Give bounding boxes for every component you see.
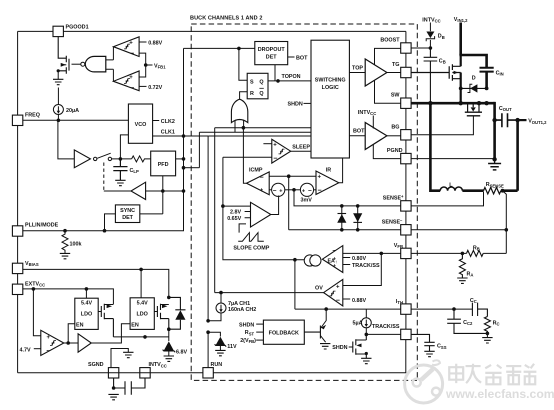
svg-text:+: + xyxy=(318,175,322,181)
svg-text:RST: RST xyxy=(245,330,255,336)
dashed IC boundary box BUCK CHANNELS 1 AND 2 xyxy=(190,16,417,381)
wire bus row1 xyxy=(215,126,311,130)
pin PGND xyxy=(387,148,411,164)
pin SW xyxy=(391,93,411,109)
ground (Q1 emitter) xyxy=(320,344,330,349)
wire dropout to TOPON xyxy=(275,65,280,83)
svg-text:TOPON: TOPON xyxy=(282,74,301,80)
svg-text:OV: OV xyxy=(315,285,323,291)
capacitor CC2 xyxy=(447,309,487,333)
svg-text:CLK1: CLK1 xyxy=(161,130,175,136)
source gm (EA output mirror circles) xyxy=(304,255,321,266)
amplifier EA (error amp, pointing left) xyxy=(322,246,342,273)
node VOUT1,2 xyxy=(515,118,547,191)
node INTVCC (boost diode supply) xyxy=(422,17,440,31)
resistor RA xyxy=(459,253,473,278)
svg-text:BOOST: BOOST xyxy=(380,38,400,44)
svg-text:EN: EN xyxy=(76,322,84,328)
diode D4 (sense clamp up) xyxy=(337,206,346,230)
node CLK2 xyxy=(153,119,175,125)
svg-text:INTVCC: INTVCC xyxy=(149,362,167,368)
node RST input xyxy=(245,330,264,336)
ground (M4 source) xyxy=(361,358,371,363)
svg-text:RSENSE: RSENSE xyxy=(486,182,504,188)
transistor M6 (bottom power NMOS) xyxy=(411,103,482,135)
comparator U4 (4.7V EXTVCC comparator) xyxy=(20,289,64,356)
DROPOUT DET box xyxy=(255,42,288,65)
capacitor CLP xyxy=(113,159,139,180)
diode D2 (VBIAS FET parallel diode) xyxy=(169,297,186,329)
svg-text:SW: SW xyxy=(391,93,401,99)
OR gate U6 (pointing up) xyxy=(231,99,247,132)
svg-text:SHDN: SHDN xyxy=(288,102,303,108)
svg-text:RC: RC xyxy=(493,320,500,326)
node VIN1,2 xyxy=(454,17,468,55)
wire VFB to OV plus xyxy=(343,253,382,285)
wire ICMP minus to IR plus xyxy=(269,174,316,229)
svg-text:BUCK CHANNELS 1 AND 2: BUCK CHANNELS 1 AND 2 xyxy=(190,16,263,22)
transistor M5 (top power NMOS) xyxy=(411,55,461,103)
pin TG xyxy=(392,62,411,78)
resistor 100k xyxy=(62,231,82,254)
svg-text:SLOPE COMP: SLOPE COMP xyxy=(233,245,269,251)
svg-text:www.elecfans.com: www.elecfans.com xyxy=(445,387,554,401)
svg-text:0.88V: 0.88V xyxy=(352,298,366,304)
svg-text:RA: RA xyxy=(467,271,474,277)
bottom rail wire xyxy=(18,339,406,372)
svg-text:SLEEP: SLEEP xyxy=(292,144,310,150)
watermark logo elecfans xyxy=(405,360,443,403)
svg-text:VIN1,2: VIN1,2 xyxy=(454,17,468,23)
svg-text:Q: Q xyxy=(259,91,263,97)
ground (6.8V zener) xyxy=(164,356,174,361)
switch SW1 (mode switch) xyxy=(97,153,111,191)
svg-text:CC: CC xyxy=(470,298,477,304)
comparator SLEEP xyxy=(223,139,311,163)
comparator ICMP (pointing left) xyxy=(247,168,270,195)
svg-text:−: − xyxy=(336,297,340,304)
pin FREQ xyxy=(12,113,40,126)
svg-text:+: + xyxy=(47,335,51,341)
svg-text:BOT: BOT xyxy=(353,129,365,135)
svg-text:Q: Q xyxy=(259,79,263,85)
comparator PGOOD upper (0.88V) xyxy=(113,37,162,60)
svg-text:D: D xyxy=(472,76,476,82)
transistor M3 (VBIAS pass FET) xyxy=(154,296,170,331)
node VFB1 xyxy=(139,53,166,77)
diode D (SW schottky) xyxy=(459,76,489,93)
svg-text:0.88V: 0.88V xyxy=(148,41,162,47)
svg-text:+: + xyxy=(129,75,133,81)
svg-text:−: − xyxy=(130,85,134,92)
ground (power output) xyxy=(488,159,501,170)
wire PLLIN/MODE row xyxy=(23,191,184,233)
comparator PGOOD lower (0.72V) xyxy=(113,69,162,92)
svg-text:VCO: VCO xyxy=(135,122,147,128)
ground (PGOOD MOSFET source) xyxy=(53,79,63,84)
svg-text:SENSE−: SENSE− xyxy=(382,218,403,225)
wire SENSE- line xyxy=(289,228,401,232)
svg-text:TG: TG xyxy=(392,62,400,68)
pin SGND xyxy=(88,362,119,378)
wire R input from OR gate xyxy=(240,92,248,100)
svg-text:ITH: ITH xyxy=(396,299,403,305)
amplifier SLOPE COMP xyxy=(223,196,279,233)
zener D3 (6.8V) xyxy=(163,329,188,356)
svg-text:5µA: 5µA xyxy=(353,320,363,326)
node BOT (dropout input) xyxy=(288,56,308,62)
svg-text:TRACK/SS: TRACK/SS xyxy=(352,263,380,269)
ground (CLP) xyxy=(115,180,125,185)
wire comparator out / EN taps xyxy=(64,324,78,345)
wire: top rail PGOOD1/BOOST y=31.4 xyxy=(18,30,406,32)
resistor RSENSE xyxy=(484,182,518,194)
svg-text:LDO: LDO xyxy=(81,312,92,318)
svg-text:ICMP: ICMP xyxy=(249,168,263,174)
wire TRACK/SS external / capacitor CSS xyxy=(411,334,447,351)
wire PFD right to rail xyxy=(176,157,186,161)
svg-text:BOT: BOT xyxy=(296,56,308,62)
svg-text:−: − xyxy=(130,51,134,58)
wire ITH sense vertical xyxy=(221,157,304,261)
wire SENSE+ line xyxy=(294,190,401,208)
svg-text:+: + xyxy=(273,143,277,149)
capacitor COUT xyxy=(495,106,518,127)
wire ICMP output vertical xyxy=(243,128,246,184)
pin SENSE+ xyxy=(383,194,411,211)
svg-text:+: + xyxy=(129,41,133,47)
svg-text:CB: CB xyxy=(439,59,446,65)
capacitor CC xyxy=(470,298,488,317)
svg-text:SYNC: SYNC xyxy=(120,208,135,214)
svg-text:20µA: 20µA xyxy=(66,108,79,114)
LDO U2 (5.4V LDO EXTVCC) xyxy=(75,289,98,330)
svg-text:4.7V: 4.7V xyxy=(20,348,31,354)
svg-text:6.8V: 6.8V xyxy=(176,350,187,356)
PFD box xyxy=(151,151,176,176)
svg-text:SWITCHING: SWITCHING xyxy=(315,78,346,84)
wire SW node (thick) xyxy=(411,101,495,105)
wire SGND branch + small ground xyxy=(111,349,134,368)
node TOPON / wire Q to switching logic xyxy=(268,74,311,81)
NAND gate U1 (pointing left) xyxy=(72,56,114,72)
svg-text:VOUT1,2: VOUT1,2 xyxy=(528,119,547,125)
node 2(VFB) input xyxy=(240,338,263,344)
svg-text:R: R xyxy=(250,91,254,97)
resistor RC xyxy=(484,317,499,336)
wire INTVCC internal rail xyxy=(113,335,168,339)
buffer B2 (sync feedback, pointing left) xyxy=(104,182,186,199)
svg-text:VFB: VFB xyxy=(394,243,403,249)
svg-text:DB: DB xyxy=(438,34,445,40)
svg-text:2.8V: 2.8V xyxy=(230,210,241,216)
node SHDN input xyxy=(239,323,263,329)
wire VBIAS rail xyxy=(23,268,169,298)
wire OV feedback vertical xyxy=(214,128,216,293)
svg-text:TOP: TOP xyxy=(352,65,363,71)
svg-text:SHDN: SHDN xyxy=(239,323,254,329)
diode D5 (sense clamp down) xyxy=(353,206,362,230)
svg-text:−: − xyxy=(318,188,322,195)
driver TOP (TG gate driver) xyxy=(349,48,401,103)
svg-text:+: + xyxy=(279,188,282,194)
wire SENSE- external xyxy=(411,191,508,254)
zener D6 (11V RUN clamp) xyxy=(206,330,237,350)
watermark text 电子发烧友 (glyph approximation) xyxy=(449,364,536,385)
left rail x=183.5 upper segment xyxy=(184,48,239,191)
svg-text:5.4V: 5.4V xyxy=(137,301,148,307)
capacitor C1 (INTVCC bypass) + ground xyxy=(108,378,145,400)
pin INTVCC xyxy=(140,362,167,378)
current source 20uA xyxy=(53,88,79,121)
svg-text:5.4V: 5.4V xyxy=(81,301,92,307)
svg-text:SHDN: SHDN xyxy=(332,345,347,351)
svg-text:100k: 100k xyxy=(70,242,82,248)
wire VIN bus xyxy=(459,55,486,68)
wire SYNC DET to PFD xyxy=(162,176,164,214)
source V2 (3mV offset) xyxy=(300,183,316,203)
wire PGND external xyxy=(411,158,493,160)
current source 7uA CH1 / 160nA CH2 xyxy=(206,291,256,323)
svg-text:INTVCC: INTVCC xyxy=(422,17,440,23)
svg-text:PGOOD1: PGOOD1 xyxy=(66,25,89,31)
wire bus row2 xyxy=(199,132,311,168)
wire EXTVCC rail xyxy=(23,287,114,304)
pin TRACK/SS xyxy=(372,324,411,339)
svg-text:LOGIC: LOGIC xyxy=(322,85,339,91)
SYNC DET box xyxy=(105,205,163,231)
ground (RA) xyxy=(457,278,467,283)
svg-text:PGND: PGND xyxy=(387,148,403,154)
node SHDN (switching logic input) xyxy=(288,102,312,108)
transistor M1 (PGOOD pulldown MOSFET) xyxy=(57,37,69,80)
wire BOOST external xyxy=(411,46,432,50)
diode DB (boost schottky) xyxy=(426,32,445,49)
wire EA minus to VFB pin xyxy=(343,249,401,255)
ground (11V zener) xyxy=(215,350,225,355)
resistor R (loop filter) xyxy=(132,156,151,162)
svg-text:IR: IR xyxy=(326,168,331,174)
right pin rail xyxy=(405,31,407,339)
source V1 (slope comp summing) xyxy=(269,183,300,196)
svg-text:CLK2: CLK2 xyxy=(161,119,175,125)
wire: left pin rail x=17.6 xyxy=(17,31,19,372)
SWITCHING LOGIC box xyxy=(311,40,349,158)
inductor L xyxy=(430,103,483,191)
svg-text:COUT: COUT xyxy=(499,106,512,112)
svg-text:+: + xyxy=(302,188,305,194)
comparator OV (pointing left) xyxy=(215,279,367,306)
svg-text:2(VFB): 2(VFB) xyxy=(240,338,256,344)
svg-text:3mV: 3mV xyxy=(301,197,313,203)
svg-text:0.65V: 0.65V xyxy=(227,216,241,222)
ground (100k) xyxy=(60,253,70,258)
LDO U3 (5.4V LDO VBIAS) xyxy=(130,269,154,329)
watermark text www.elecfans.com xyxy=(445,387,554,401)
svg-text:VFB1: VFB1 xyxy=(154,63,166,69)
svg-text:7µA CH1: 7µA CH1 xyxy=(228,301,250,307)
svg-text:INTVCC: INTVCC xyxy=(358,110,376,116)
svg-text:SENSE+: SENSE+ xyxy=(383,194,404,201)
svg-text:CLP: CLP xyxy=(130,168,139,174)
sawtooth waveform glyph xyxy=(233,233,269,252)
pin RUN xyxy=(203,332,222,378)
wire SW to output filter corner (thick) xyxy=(492,103,496,161)
FOLDBACK box xyxy=(263,320,304,344)
wire rail to inner row xyxy=(182,166,200,170)
svg-text:−: − xyxy=(46,348,50,355)
svg-text:CSS: CSS xyxy=(437,344,447,350)
node EA refs 0.80V TRACK/SS xyxy=(343,256,380,269)
transistor Q1 (foldback PNP) xyxy=(304,307,328,342)
current source 5uA (TRACK/SS charge) xyxy=(353,309,372,334)
wire S-latch set line xyxy=(237,47,255,81)
buffer B3 (EN buffer) xyxy=(78,324,130,353)
buffer B1 (VCO control buffer) xyxy=(23,120,97,167)
node ITH row xyxy=(295,260,401,309)
svg-text:S: S xyxy=(250,79,254,85)
wire bus row3 xyxy=(208,136,311,321)
svg-text:+: + xyxy=(336,284,340,290)
svg-text:LDO: LDO xyxy=(137,312,148,318)
latch U5 (SR latch) xyxy=(247,73,268,99)
comparator IR xyxy=(316,158,343,195)
transistor M4 (SHDN pulldown on TRACK/SS) xyxy=(332,334,368,358)
svg-text:RUN: RUN xyxy=(211,362,223,368)
svg-text:11V: 11V xyxy=(227,344,237,350)
svg-text:CC2: CC2 xyxy=(463,320,473,326)
svg-text:CIN: CIN xyxy=(496,70,504,76)
svg-text:DET: DET xyxy=(266,55,277,61)
svg-text:PFD: PFD xyxy=(158,162,169,168)
pin ITH xyxy=(396,299,411,315)
wire VFB external / resistor RB xyxy=(411,245,506,256)
ground (RC/CC2) xyxy=(482,333,492,343)
svg-text:TRACK/SS: TRACK/SS xyxy=(372,324,400,330)
svg-text:−: − xyxy=(273,187,277,194)
wire FREQ to VCO xyxy=(23,119,129,123)
svg-text:−: − xyxy=(259,175,263,182)
svg-text:SGND: SGND xyxy=(88,362,104,368)
ground (CSS) xyxy=(424,351,434,356)
svg-text:−: − xyxy=(332,247,336,254)
transistor M2 (EXTVCC pass FET) xyxy=(98,304,113,337)
svg-text:DET: DET xyxy=(122,215,133,221)
pin PGOOD1 xyxy=(53,25,89,37)
wire SENSE+ external xyxy=(411,192,483,206)
pin VBIAS xyxy=(12,261,38,274)
svg-text:VBIAS: VBIAS xyxy=(25,261,39,267)
wire ITH external xyxy=(411,307,472,311)
wire TRACK/SS row xyxy=(365,333,402,337)
pin PLLIN/MODE xyxy=(12,223,58,237)
pin VFB xyxy=(394,243,411,259)
capacitor CIN xyxy=(480,68,504,89)
svg-text:PLLIN/MODE: PLLIN/MODE xyxy=(25,223,59,229)
svg-text:EXTVCC: EXTVCC xyxy=(25,281,45,287)
svg-text:DROPOUT: DROPOUT xyxy=(258,47,286,53)
pin SENSE- xyxy=(382,218,411,235)
driver BOT (BG gate driver) xyxy=(349,110,401,159)
svg-text:EN: EN xyxy=(131,322,139,328)
svg-text:+: + xyxy=(260,188,264,194)
wire switch to filter node xyxy=(112,135,132,161)
capacitor CB xyxy=(424,48,446,103)
svg-text:↑: ↑ xyxy=(335,260,338,266)
svg-text:−: − xyxy=(273,155,277,162)
svg-text:0.72V: 0.72V xyxy=(148,85,162,91)
svg-text:160nA CH2: 160nA CH2 xyxy=(228,307,256,313)
pin BG xyxy=(391,124,411,140)
pin EXTVCC xyxy=(12,281,45,294)
svg-text:FOLDBACK: FOLDBACK xyxy=(269,331,299,337)
svg-text:BG: BG xyxy=(391,124,399,130)
VCO box xyxy=(128,104,152,143)
node CLK1 / wire to inner logic xyxy=(153,130,209,138)
pin BOOST xyxy=(380,38,411,54)
svg-text:FREQ: FREQ xyxy=(25,113,40,119)
svg-text:−: − xyxy=(308,187,312,194)
svg-text:0.80V: 0.80V xyxy=(352,256,366,262)
